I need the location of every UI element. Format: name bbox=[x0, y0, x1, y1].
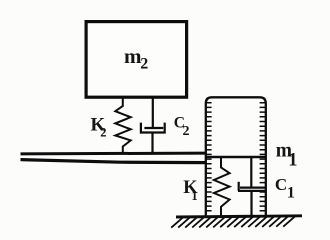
label C2 bbox=[174, 114, 190, 138]
label K1 bbox=[183, 178, 198, 203]
spring K2 bbox=[115, 99, 130, 154]
label K2 bbox=[91, 115, 107, 140]
damper C1 cup left lip bbox=[238, 182, 240, 191]
column m1 outline bbox=[206, 97, 266, 216]
chamber top line bbox=[206, 156, 266, 159]
damper C2 stem bottom bbox=[151, 133, 153, 155]
svg-text:1: 1 bbox=[287, 184, 295, 201]
damper C1 stem bottom bbox=[250, 191, 252, 216]
ground line bbox=[176, 216, 302, 217]
damper C2 cup bbox=[141, 123, 165, 133]
damper C1 piston bbox=[240, 187, 265, 189]
column left edge ticks bbox=[206, 103, 212, 211]
damper C2 piston bbox=[144, 127, 163, 129]
column right edge ticks bbox=[260, 103, 266, 211]
spring K1 bbox=[214, 157, 230, 216]
svg-text:2: 2 bbox=[100, 126, 106, 140]
beam bottom line bbox=[21, 160, 207, 163]
damper C1 stem top bbox=[250, 157, 252, 188]
svg-text:2: 2 bbox=[140, 56, 148, 73]
ground hatching bbox=[171, 216, 295, 228]
beam top line bbox=[21, 152, 207, 156]
svg-text:1: 1 bbox=[288, 150, 297, 170]
label C1 bbox=[275, 175, 295, 201]
svg-text:m: m bbox=[124, 44, 142, 68]
svg-text:C: C bbox=[275, 175, 287, 194]
damper C1 cup bottom bbox=[238, 190, 266, 192]
damper C2 stem top bbox=[152, 99, 154, 129]
label m1 bbox=[276, 140, 298, 170]
svg-text:2: 2 bbox=[183, 124, 190, 139]
mass m2 box bbox=[86, 22, 187, 98]
label m2 bbox=[124, 44, 148, 73]
svg-text:1: 1 bbox=[191, 189, 197, 203]
